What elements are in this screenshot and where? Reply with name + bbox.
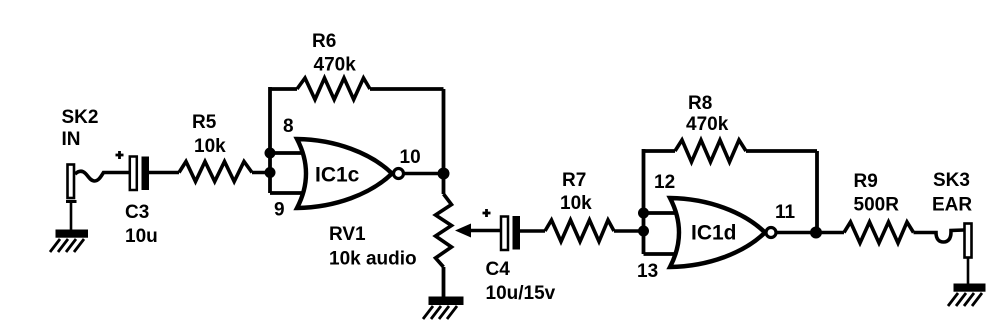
wire (R8 feedback top, left segment) [644, 149, 676, 153]
svg-text:IC1c: IC1c [315, 164, 360, 187]
node (feedback/input junction) [265, 148, 276, 159]
wire (feedback right vertical) [442, 89, 446, 174]
op-amp gate IC1c [297, 139, 392, 208]
ground (under SK2) [50, 230, 88, 253]
svg-text:470k: 470k [686, 114, 729, 135]
wire (R6 feedback top, right segment) [370, 87, 444, 91]
ground (under RV1) [423, 297, 464, 320]
label SK3 EAR [932, 170, 972, 216]
node (feedback/input junction IC1d) [638, 208, 649, 219]
svg-text:8: 8 [283, 116, 294, 137]
resistor R8 [675, 140, 746, 162]
wire (R8 feedback top, right segment) [746, 149, 817, 153]
svg-text:10k audio: 10k audio [329, 249, 417, 270]
wire (IC1d output) [776, 231, 844, 235]
wire (feedback right vertical IC1d) [815, 151, 819, 233]
label R8 470k [686, 93, 729, 135]
svg-text:10k: 10k [560, 193, 592, 214]
node (R7 input junction) [638, 226, 649, 237]
resistor R6 [297, 78, 370, 100]
potentiometer RV1 [436, 194, 452, 267]
svg-text:C4: C4 [486, 259, 511, 280]
svg-text:R7: R7 [562, 170, 586, 191]
resistor R5 [179, 162, 252, 182]
wire (R7 to input bus IC1d) [614, 229, 644, 233]
svg-text:13: 13 [637, 261, 658, 282]
svg-text:R6: R6 [312, 31, 336, 52]
svg-text:R8: R8 [688, 93, 712, 114]
wire (R9 to SK3, with hook) [914, 230, 965, 242]
svg-text:EAR: EAR [932, 195, 972, 216]
label R6 470k [312, 31, 356, 76]
svg-text:SK3: SK3 [933, 170, 970, 191]
svg-text:IN: IN [62, 129, 81, 150]
svg-text:SK2: SK2 [62, 107, 99, 128]
capacitor C3 [116, 151, 150, 190]
svg-text:RV1: RV1 [329, 224, 366, 245]
ground (under SK3) [948, 284, 986, 307]
op-amp gate IC1d [670, 198, 765, 267]
capacitor C4 [483, 209, 521, 250]
svg-text:IC1d: IC1d [691, 222, 737, 245]
wire (input bus IC1d) [642, 149, 646, 254]
svg-text:R5: R5 [192, 112, 217, 133]
jack SK2 [66, 165, 77, 232]
label C3 10u [125, 202, 158, 247]
svg-text:11: 11 [775, 202, 796, 223]
wire (pin 13 stub) [644, 252, 679, 256]
node (output junction) [438, 168, 450, 180]
label R5 10k [192, 112, 226, 157]
svg-text:10u: 10u [125, 226, 158, 247]
resistor R7 [545, 220, 614, 242]
wire (pin 9 stub) [270, 191, 305, 195]
jack SK3 [965, 224, 972, 285]
wire (input bus IC1c) [268, 87, 272, 193]
wire (RV1 to ground) [442, 267, 446, 299]
wire (R5 to input bus) [252, 171, 270, 175]
wire (SK2 to C3, squiggle) [75, 171, 130, 181]
svg-text:12: 12 [654, 172, 675, 193]
wire (R6 feedback top, left segment) [270, 87, 297, 91]
svg-text:470k: 470k [314, 55, 357, 76]
svg-text:10k: 10k [194, 136, 226, 157]
svg-text:500R: 500R [854, 195, 900, 216]
label SK2 IN [62, 107, 99, 150]
wire (C3 to R5) [149, 171, 179, 175]
wire (pin 8 stub) [270, 151, 305, 155]
wire (output node to RV1) [442, 174, 446, 195]
label RV1 10k audio [329, 224, 417, 270]
svg-text:10u/15v: 10u/15v [486, 283, 556, 304]
svg-text:10: 10 [400, 147, 421, 168]
label C4 10u/15v [486, 259, 556, 304]
output bubble IC1d [766, 228, 776, 238]
wire (C4 to R7) [520, 229, 545, 233]
node (output junction IC1d) [810, 227, 822, 239]
wire (IC1c output) [404, 172, 444, 176]
label R9 500R [854, 171, 900, 216]
wiper arrow RV1 [455, 224, 501, 238]
node (R5 input junction) [265, 167, 276, 178]
wire (pin 12 stub) [644, 211, 679, 215]
output bubble IC1c [394, 169, 404, 179]
svg-text:9: 9 [274, 200, 285, 221]
svg-text:C3: C3 [125, 202, 149, 223]
svg-text:R9: R9 [854, 171, 878, 192]
resistor R9 [844, 222, 914, 243]
label R7 10k [560, 170, 592, 214]
